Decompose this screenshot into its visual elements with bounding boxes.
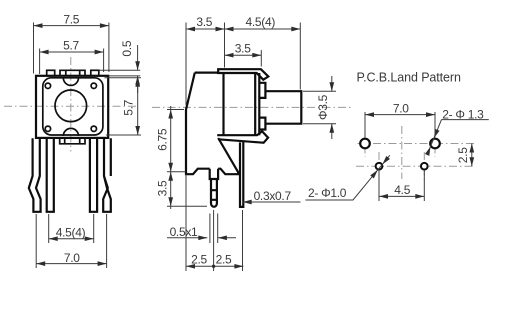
lower terminal contact block xyxy=(259,118,265,130)
leader line 2-phi1.3 xyxy=(428,120,489,154)
svg-text:4.5(4): 4.5(4) xyxy=(246,15,276,29)
dimension 7.0 (hole pitch) xyxy=(365,102,435,138)
svg-text:4.5(4): 4.5(4) xyxy=(56,225,86,239)
corner rivet circle bottom-right xyxy=(91,126,96,131)
hole phi1.3 left xyxy=(360,139,370,149)
dimension 3.5 (left, top of side view) xyxy=(186,15,225,105)
svg-text:3.5: 3.5 xyxy=(235,41,251,55)
centerline vertical pattern center xyxy=(401,126,403,179)
dimension 4.5 (small hole pitch) xyxy=(379,171,424,202)
button column right wall xyxy=(255,73,259,135)
button column left edge xyxy=(222,73,224,135)
svg-text:5.7: 5.7 xyxy=(122,99,136,115)
corner rivet circle bottom-left xyxy=(45,126,50,131)
leg inner-left xyxy=(47,138,54,212)
leader line 2-phi1.0 xyxy=(306,155,390,200)
centerline vertical left view xyxy=(70,57,72,152)
top contact dome arc xyxy=(63,78,78,86)
back leg xyxy=(240,141,243,207)
center circle (stem) xyxy=(55,90,87,122)
dimension 2.5 / 2.5 (leg offsets) xyxy=(186,174,243,271)
dimension 6.75 (body height) xyxy=(155,106,185,209)
front leg with bend ticks xyxy=(210,169,218,207)
leader 0.5x1 (front leg section) xyxy=(167,214,236,244)
svg-text:0.5x1: 0.5x1 xyxy=(170,225,198,239)
centerline horizontal middle view xyxy=(152,106,352,108)
svg-text:3.5: 3.5 xyxy=(196,15,212,29)
dimension 0.5 (tab height) xyxy=(100,40,141,93)
leader 0.3x0.7 (back leg section) xyxy=(243,189,301,204)
centerline row of small holes xyxy=(356,165,475,167)
hole phi1.0 left xyxy=(376,163,383,170)
dimension 3.5 (cap width) xyxy=(225,41,262,66)
svg-text:6.75: 6.75 xyxy=(155,128,169,151)
svg-text:2- Φ 1.3: 2- Φ 1.3 xyxy=(442,107,484,121)
centerline vertical through left small hole xyxy=(378,152,380,180)
label 2- phi1.3 xyxy=(442,107,484,121)
switch body outer square xyxy=(36,76,108,138)
centerline horizontal left view xyxy=(4,105,139,107)
leg outer-left with break xyxy=(29,138,41,212)
svg-text:4.5: 4.5 xyxy=(394,183,410,197)
dimension 2.5 (row offset) xyxy=(456,144,474,167)
dimension 5.7 (left view top inner) xyxy=(40,39,104,74)
svg-text:7.5: 7.5 xyxy=(63,12,79,26)
top tab wide center xyxy=(60,70,85,76)
upper terminal contact block xyxy=(259,83,265,98)
svg-text:Φ3.5: Φ3.5 xyxy=(316,94,330,120)
corner rivet circle top-left xyxy=(45,83,50,88)
svg-text:0.5: 0.5 xyxy=(120,40,134,56)
top tab small left xyxy=(47,70,55,76)
svg-text:7.0: 7.0 xyxy=(64,251,80,265)
dimension 4.5(4) (inner leg pitch) xyxy=(49,214,94,243)
title P.C.B.Land Pattern xyxy=(357,70,461,84)
leg outer-right with break xyxy=(103,138,111,212)
centerline row of big holes xyxy=(358,143,475,145)
svg-text:2.5: 2.5 xyxy=(456,147,470,163)
svg-text:2.5: 2.5 xyxy=(191,253,207,267)
svg-text:2- Φ1.0: 2- Φ1.0 xyxy=(308,186,347,200)
switch body inner rounded square xyxy=(43,78,103,135)
dimension phi 3.5 (shaft diameter) xyxy=(303,76,336,139)
label 2- phi1.0 xyxy=(308,186,347,200)
dimension 4.5(4) (top of side view) xyxy=(225,15,301,90)
svg-text:3.5: 3.5 xyxy=(155,180,169,196)
corner rivet circle top-right xyxy=(91,83,96,88)
bottom contact dome arc xyxy=(63,128,78,136)
svg-text:P.C.B.Land Pattern: P.C.B.Land Pattern xyxy=(357,70,461,84)
top tab small right xyxy=(91,70,99,76)
dimension 7.5 (left view top) xyxy=(34,12,109,73)
centerline vertical through right small hole xyxy=(423,152,425,180)
body bracket outline xyxy=(186,73,239,175)
hole phi1.3 right xyxy=(430,139,440,149)
bottom flag plate with bent tip xyxy=(217,131,268,142)
leader arrows phi1.0 xyxy=(370,156,390,178)
svg-text:2.5: 2.5 xyxy=(216,253,232,267)
actuator shaft xyxy=(265,91,301,124)
dimension 3.5 (leg length) xyxy=(155,172,207,207)
centerline vertical through left big hole xyxy=(364,130,366,157)
bottom tab wide center xyxy=(60,138,85,144)
svg-text:5.7: 5.7 xyxy=(63,39,79,53)
dimension 5.7 (left view right side) xyxy=(105,78,142,135)
leader arrows phi1.3 xyxy=(425,129,440,156)
hole phi1.0 right xyxy=(421,163,428,170)
button cap plate with bent tip xyxy=(218,69,268,80)
svg-text:7.0: 7.0 xyxy=(393,102,409,116)
centerline vertical through right big hole xyxy=(434,130,436,157)
leg inner-right xyxy=(90,138,97,212)
dimension 7.0 (outer leg pitch) xyxy=(36,214,106,268)
svg-text:0.3x0.7: 0.3x0.7 xyxy=(254,189,292,203)
